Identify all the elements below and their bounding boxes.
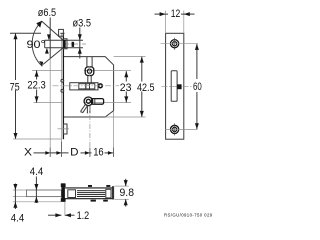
tick at faceplate — [60, 142, 62, 158]
faceplate strip front view right line — [62, 33, 64, 139]
centreline slot — [162, 86, 192, 88]
22.3 dim reference top — [32, 69, 63, 71]
svg-text:16: 16 — [93, 147, 104, 159]
strip extension down to X dim line — [60, 139, 62, 157]
1.2 dim line — [48, 214, 61, 216]
spindle axis dash-dot down to X dim — [89, 106, 91, 157]
tick at latch projection — [49, 148, 51, 158]
tick at body edge — [113, 148, 115, 158]
svg-text:4.4: 4.4 — [30, 166, 43, 178]
vertical lines below lower hub — [86, 105, 88, 113]
follower block — [106, 189, 111, 198]
follower slot above upper hub — [86, 57, 88, 68]
slide internal rect right — [86, 84, 95, 89]
svg-text:RS/GU/0910-750 029: RS/GU/0910-750 029 — [164, 213, 213, 218]
dia 3.5 arrow lower — [78, 48, 82, 54]
slide bolt outer rectangle — [70, 83, 98, 90]
dia 3.5 leader line — [79, 28, 81, 59]
slide internal rect left — [79, 84, 86, 89]
12 label — [168, 8, 181, 18]
latch tip projection line — [49, 59, 51, 157]
12 dim line — [155, 13, 166, 15]
60 dim line — [196, 44, 198, 79]
extension line bottom of body to 42.5 dim — [105, 116, 145, 118]
faceplate right view outline — [166, 33, 184, 139]
42.5 dim line — [141, 57, 143, 117]
75 dim arrow top — [14, 33, 18, 39]
connector below upper hub — [87, 76, 89, 83]
lower hub diagonal leg — [81, 104, 86, 111]
lower hub inner circle — [86, 99, 90, 103]
case top wall bottom view — [65, 187, 114, 189]
svg-text:D: D — [70, 147, 78, 159]
extension line top of body to 42.5 dim — [114, 56, 146, 58]
9.8 arrow bottom — [124, 199, 128, 205]
svg-text:ø6.5: ø6.5 — [38, 7, 56, 19]
faceplate top tick — [60, 32, 64, 34]
23 dim line — [125, 71, 127, 102]
latch internal block — [72, 42, 75, 47]
svg-text:12: 12 — [171, 8, 181, 20]
4.4 upper dim — [35, 177, 37, 204]
end cap — [112, 186, 114, 199]
case bottom wall bottom view — [65, 198, 114, 200]
screw hole top — [171, 40, 179, 48]
top tabs — [88, 185, 92, 187]
16 arrow at body edge — [108, 151, 113, 155]
75 label — [8, 80, 20, 90]
42.5 label — [136, 82, 156, 92]
X arrow at latch projection — [45, 151, 50, 155]
svg-text:22.3: 22.3 — [27, 80, 45, 92]
svg-text:X: X — [24, 147, 33, 159]
dia 6.5 leader line — [49, 18, 51, 59]
solid marker at faceplate — [56, 151, 61, 155]
screw hole bottom — [171, 125, 179, 133]
22.3 dim arrow bottom — [35, 96, 39, 102]
4.4 left dim — [14, 184, 16, 210]
90 degree swing arc — [32, 21, 42, 66]
strip small circle lower — [61, 89, 64, 92]
23 dim arrow bottom — [124, 96, 128, 102]
dia 6.5 arrow lower — [45, 48, 49, 54]
strip small circle upper — [61, 79, 64, 82]
leg end tick — [80, 112, 83, 113]
22.3 dim arrow top — [35, 71, 39, 77]
dia 3.5 arrow upper — [78, 34, 82, 40]
1.2 extension — [64, 202, 66, 216]
latch bolt bottom edge — [45, 47, 83, 49]
12 dim extension lines — [165, 11, 167, 34]
upper hub inner circle — [87, 69, 91, 73]
22.3 label — [27, 80, 49, 90]
pivot box top left — [59, 29, 64, 36]
arc arrowhead top — [36, 21, 42, 28]
latch blade bottom view — [27, 190, 62, 197]
42.5 dim arrow top — [140, 57, 144, 63]
horizontal centreline front view — [53, 85, 120, 87]
latch tail rect — [68, 190, 76, 198]
lower hub outer circle — [84, 97, 93, 106]
slide centre vertical — [89, 83, 91, 90]
lower hub arm — [92, 99, 104, 105]
pin circle — [99, 84, 103, 88]
svg-text:23: 23 — [120, 82, 132, 94]
75 dim arrow bottom — [14, 133, 18, 139]
svg-text:42.5: 42.5 — [137, 82, 155, 94]
svg-text:75: 75 — [10, 81, 20, 93]
svg-text:90°: 90° — [27, 39, 46, 51]
22.3 dim reference bottom — [34, 102, 64, 104]
centreline top hole — [161, 43, 199, 45]
22.3 dim line — [36, 70, 38, 102]
D arrow at spindle axis — [85, 151, 90, 155]
lower lug centre tick — [58, 128, 70, 130]
bottom tabs — [91, 200, 96, 202]
svg-text:4.4: 4.4 — [11, 213, 24, 225]
slot — [171, 71, 177, 102]
9.8 arrow top — [124, 180, 128, 186]
75 dim line — [15, 33, 17, 139]
75 dim reference line top — [10, 32, 41, 34]
svg-text:1.2: 1.2 — [77, 210, 90, 222]
60 label — [192, 80, 204, 91]
upper fixing lug — [63, 39, 67, 49]
42.5 dim arrow bottom — [140, 111, 144, 117]
upper hub cross ticks — [89, 66, 91, 77]
svg-text:ø3.5: ø3.5 — [73, 18, 92, 30]
tick at spindle axis — [89, 148, 91, 158]
latch bolt face (bold) — [63, 40, 66, 48]
arc arrowhead bottom — [39, 61, 43, 66]
latch bolt top edge — [45, 39, 83, 41]
latch bolt centreline — [64, 43, 86, 45]
faceplate section bottom view — [61, 183, 65, 201]
faceplate strip front view left line — [60, 33, 62, 139]
9.8 dim line — [125, 179, 127, 186]
extension line body right edge down to 16 dim — [113, 111, 115, 157]
svg-text:9.8: 9.8 — [120, 187, 135, 199]
bottom view extension lines left — [13, 189, 28, 191]
front view lock body outline — [63, 57, 114, 117]
9.8 dim extension lines — [115, 185, 129, 187]
lower fixing lug — [63, 124, 67, 134]
svg-text:60: 60 — [193, 81, 202, 93]
latch open position lower diagonal D2 — [43, 48, 63, 65]
lower hub arm divider — [94, 99, 96, 105]
latch open position upper diagonal D1 — [42, 21, 64, 40]
23 dim arrow top — [124, 71, 128, 77]
dia 6.5 arrow upper — [47, 34, 51, 40]
23 label — [119, 82, 132, 92]
X D 16 dimension line — [34, 152, 50, 154]
centreline bottom hole — [165, 128, 198, 130]
upper hub outer circle — [85, 67, 94, 76]
spring stripes — [77, 189, 105, 192]
75 dim reference line bottom — [13, 138, 62, 140]
latch blade tip through slot — [177, 84, 182, 89]
